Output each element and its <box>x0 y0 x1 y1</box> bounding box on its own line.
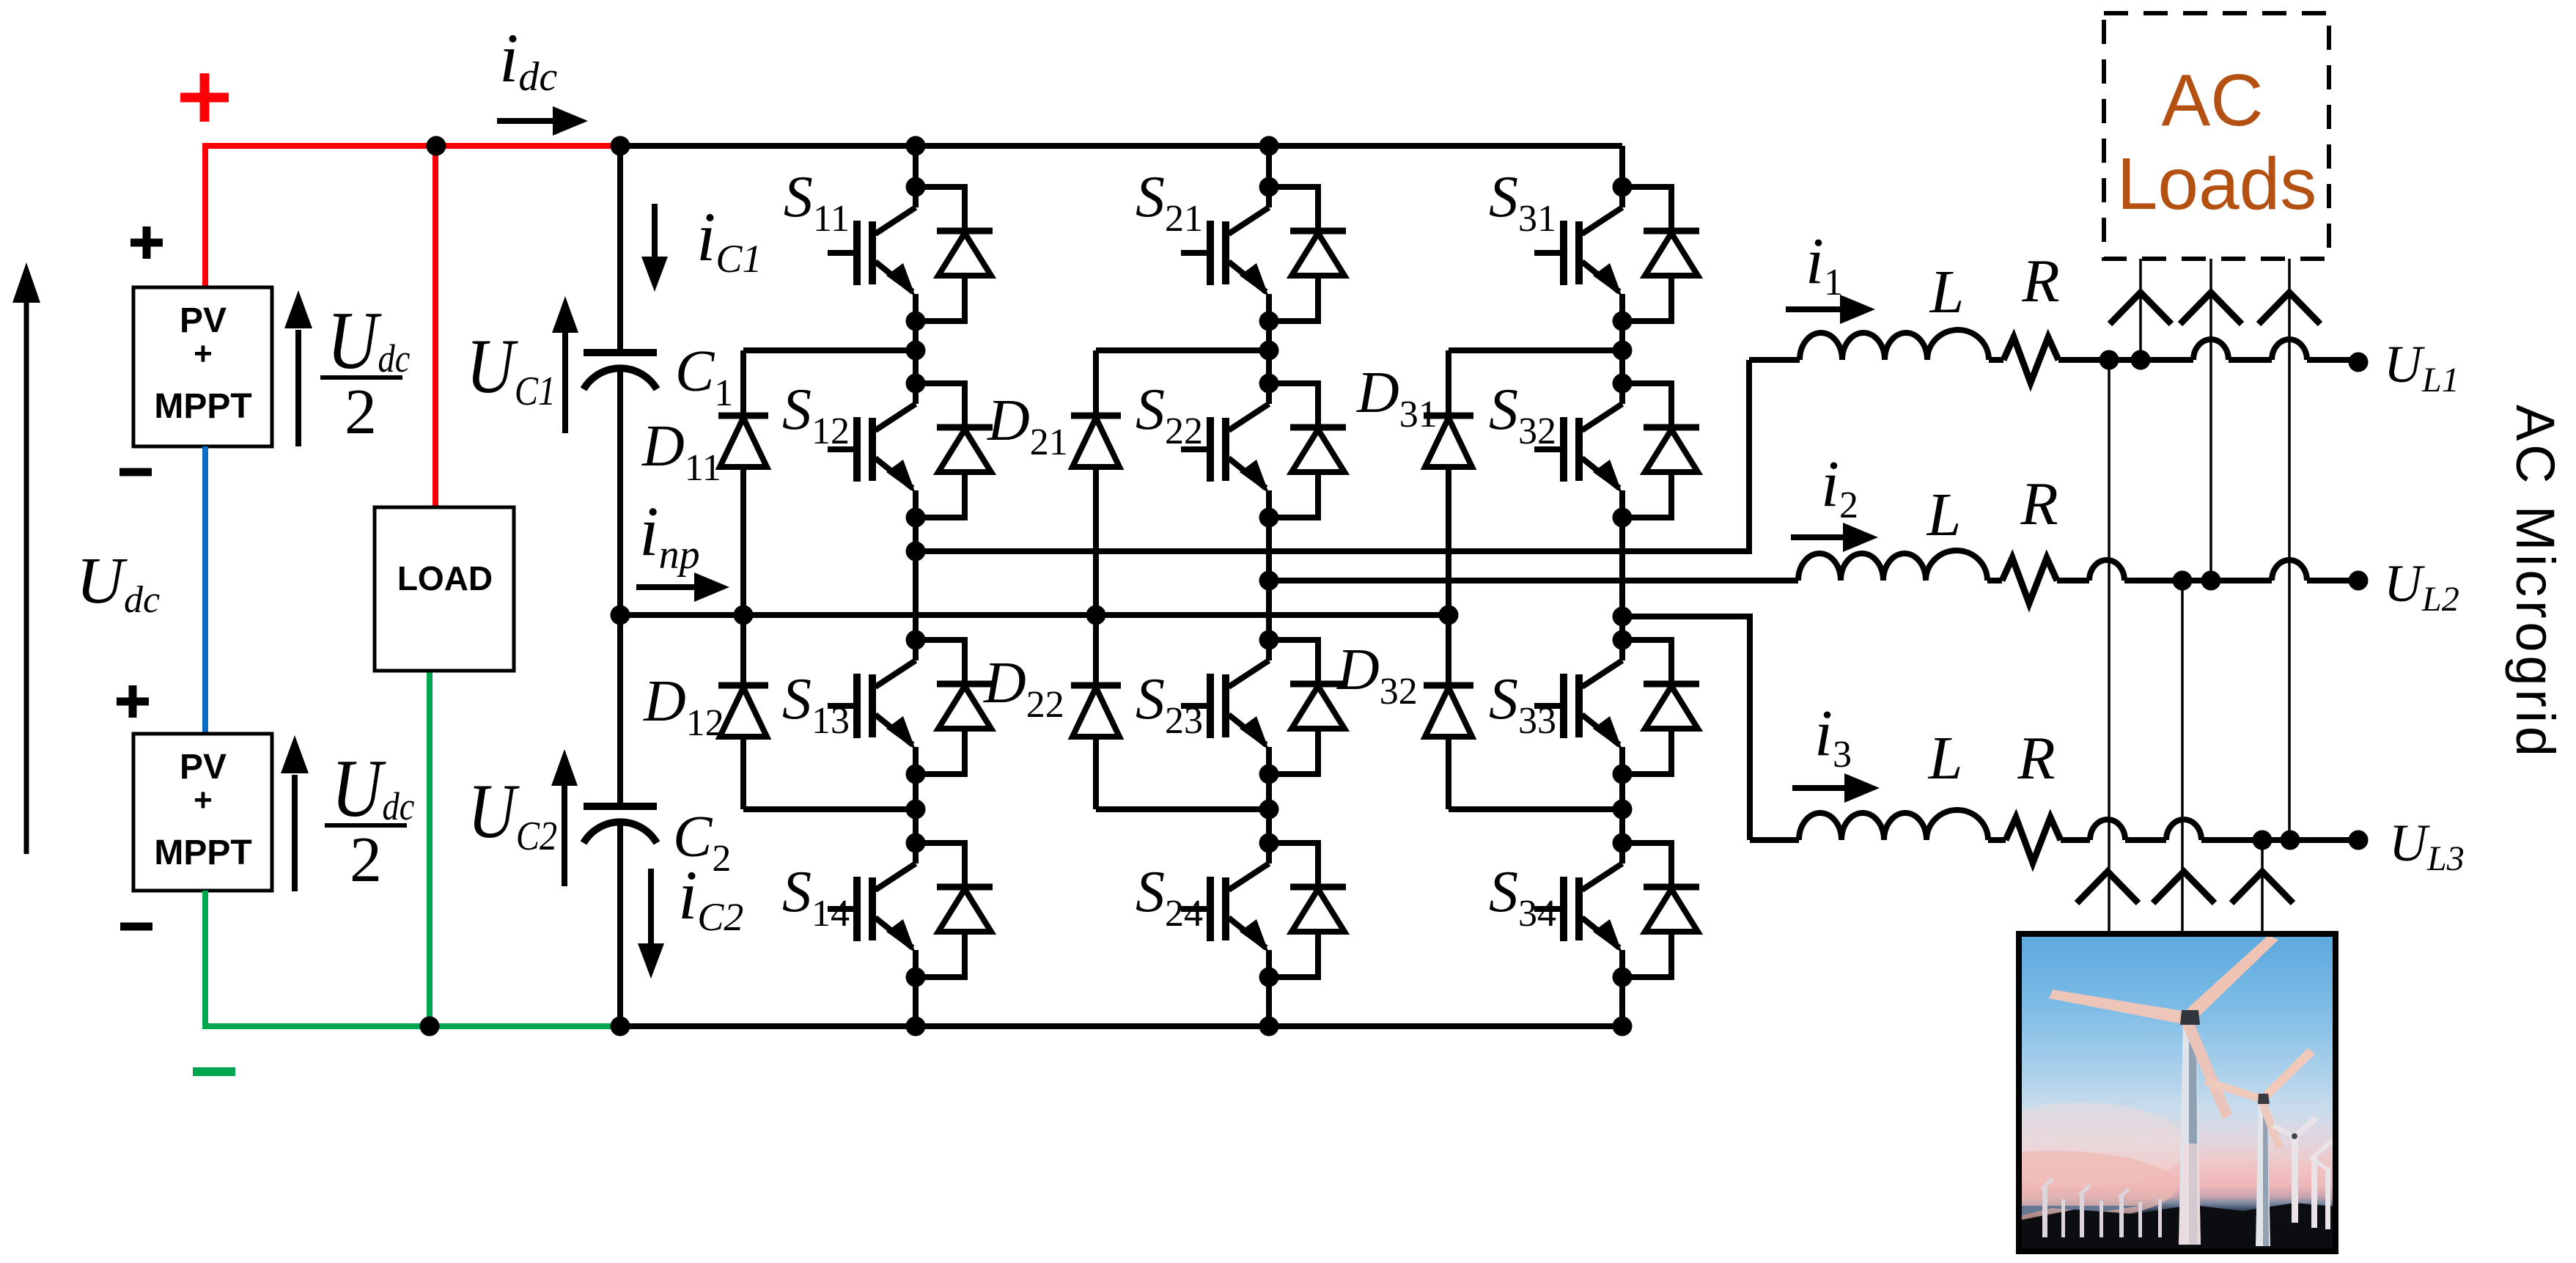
wire - clamp column 1 upper connection <box>743 347 916 353</box>
transistor S21 (IGBT with antiparallel diode) <box>1181 177 1346 331</box>
label UL2 <box>2384 554 2459 619</box>
svg-text:2: 2 <box>350 825 382 896</box>
arrow - Udc/2 lower arrow <box>292 775 298 891</box>
wire - phase 3 from leg3 with elbow down <box>1622 614 1750 619</box>
label Udc (total DC voltage) <box>76 545 160 621</box>
wire - loads feeder 3 <box>2288 259 2291 840</box>
label C1 <box>675 339 733 414</box>
arrow - idc current arrow <box>497 118 553 124</box>
svg-text:PV: PV <box>180 748 227 787</box>
label i3 <box>1814 697 1852 776</box>
wire - blue link between PV1 and PV2 <box>202 446 208 734</box>
node - top bus leg2 <box>1259 136 1279 156</box>
svg-text:AC Microgrid: AC Microgrid <box>2505 405 2566 756</box>
node - junction green rail / LOAD drop <box>420 1017 440 1036</box>
PV+MPPT box 1 (upper photovoltaic source) <box>133 287 272 446</box>
label S22 <box>1136 378 1203 452</box>
wire - phase 1 after R with crossover hops <box>2058 357 2193 363</box>
label iC1 <box>696 198 762 281</box>
inductor L (phase 1) <box>1800 330 1989 360</box>
wire - leg 2 vertical segments <box>1266 146 1272 187</box>
inductor L (phase 2) <box>1798 551 1987 581</box>
node - junction green rail / left DC bus <box>611 1017 630 1036</box>
node - leg 3 phase output junction <box>1613 607 1633 627</box>
wire - clamp column 1 middle vertical <box>740 467 746 685</box>
wire - phase 3 to inductor <box>1750 837 1799 843</box>
svg-text:Loads: Loads <box>2117 143 2316 225</box>
wire - green drop from LOAD box bottom <box>427 671 433 1026</box>
plus sign above PV2 <box>117 698 149 706</box>
LOAD box <box>375 507 514 671</box>
hop - phase2 over wind feeder 1 <box>2089 560 2124 581</box>
arrow chevron - loads feeder 1 <box>2110 292 2171 324</box>
wire - clamp column 1 vertical (upper) <box>740 350 746 416</box>
node - junction of red rail and left DC bus <box>611 136 630 156</box>
transistor S14 (IGBT with antiparallel diode) <box>828 833 993 987</box>
label D11 <box>641 414 721 489</box>
svg-text:L: L <box>1929 258 1965 326</box>
transistor S32 (IGBT with antiparallel diode) <box>1534 374 1699 528</box>
node - leg 3 upper clamp junction <box>1613 341 1633 361</box>
resistor R (phase 2) <box>2002 558 2057 603</box>
wire - left DC bus vertical segments <box>617 146 623 353</box>
label i1 <box>1806 225 1843 303</box>
node - phase3 to AC loads <box>2281 831 2300 850</box>
svg-text:PV: PV <box>180 301 227 340</box>
label S12 <box>782 378 850 452</box>
wire - clamp column 3 vertical (lower) <box>1446 737 1451 809</box>
svg-text:L: L <box>1927 481 1962 549</box>
label UL1 <box>2384 335 2459 399</box>
label D22 <box>983 651 1064 726</box>
hop - phase2 over loads line 3 <box>2272 560 2307 581</box>
arrow chevron - wind feeder 1 <box>2077 872 2138 903</box>
node - bottom bus leg3 <box>1613 1017 1633 1036</box>
minus sign below PV1 <box>119 468 152 476</box>
wire - wind feeder 3 <box>2261 840 2264 934</box>
arrow - iC2 current arrow (down) <box>648 869 654 943</box>
capacitor C2 <box>584 803 657 810</box>
wire - clamp column 3 middle vertical <box>1446 467 1451 685</box>
label i2 <box>1821 448 1858 526</box>
node - top bus leg1 <box>906 136 926 156</box>
transistor S24 (IGBT with antiparallel diode) <box>1181 833 1346 987</box>
node - phase2 to AC loads <box>2201 571 2221 591</box>
diode D12 (lower clamp diode) <box>718 685 768 737</box>
label fraction Udc/2 (lower) <box>331 743 414 833</box>
node - phase2 terminal <box>2349 571 2369 591</box>
arrow - tall Udc arrow at far left <box>24 302 29 854</box>
wire - wind feeder 2 <box>2181 581 2184 934</box>
svg-text:L: L <box>1928 724 1963 792</box>
wire - clamp column 3 vertical (upper) <box>1446 350 1451 416</box>
wire - leg 1 vertical segments <box>913 146 919 187</box>
node - phase1 to wind feeder <box>2100 350 2119 370</box>
wire - clamp column 2 upper connection <box>1096 347 1269 353</box>
hop - phase3 over wind feeder 2 <box>2166 820 2201 840</box>
transistor S23 (IGBT with antiparallel diode) <box>1181 630 1346 784</box>
wire - neutral bus <box>620 612 1449 618</box>
svg-text:AC: AC <box>2162 59 2264 141</box>
arrow - UC2 voltage arrow <box>562 786 567 886</box>
node - phase1 to AC loads <box>2131 350 2151 370</box>
node - phase2 to wind feeder <box>2173 571 2193 591</box>
diode D32 (lower clamp diode) <box>1424 685 1473 737</box>
wire - top DC bus <box>620 143 1622 149</box>
node - leg 1 lower clamp junction <box>906 800 926 820</box>
label fraction Udc/2 (upper) <box>327 295 410 386</box>
hop - phase3 over wind feeder 1 <box>2090 820 2125 840</box>
plus sign above PV1 <box>130 239 163 247</box>
diode D11 (upper clamp diode) <box>718 416 768 467</box>
label S14 <box>782 860 850 935</box>
svg-text:LOAD: LOAD <box>397 559 493 597</box>
node - neutral at clamp column 2 <box>1086 605 1106 625</box>
arrow - UC1 voltage arrow <box>562 333 568 433</box>
wire - loads feeder 1 <box>2139 259 2142 360</box>
inductor L (phase 3) <box>1799 810 1988 840</box>
label S13 <box>782 667 850 742</box>
svg-text:R: R <box>2017 724 2055 792</box>
node - phase1 terminal <box>2349 353 2369 372</box>
node - leg 2 upper clamp junction <box>1259 341 1279 361</box>
label S31 <box>1489 165 1556 240</box>
transistor S33 (IGBT with antiparallel diode) <box>1534 630 1699 784</box>
node - phase3 to wind feeder <box>2253 831 2273 850</box>
node - leg 3 lower clamp junction <box>1613 800 1633 820</box>
transistor S34 (IGBT with antiparallel diode) <box>1534 833 1699 987</box>
label iC2 <box>678 856 743 939</box>
label S34 <box>1489 860 1556 935</box>
wire - clamp column 1 lower connection <box>743 806 916 812</box>
label S32 <box>1489 378 1556 452</box>
wire - clamp column 2 vertical (upper) <box>1093 350 1099 416</box>
label C2 <box>673 805 731 880</box>
wire - phase 1 from leg1 to elbow <box>916 548 1749 554</box>
hop - phase1 over loads line 3 <box>2272 339 2307 360</box>
resistor R (phase 1) <box>2003 337 2058 383</box>
svg-text:2: 2 <box>345 377 377 448</box>
arrow chevron - wind feeder 2 <box>2153 872 2215 903</box>
wire - phase 1 to inductor <box>1749 357 1800 363</box>
arrow - iC1 current arrow (down) <box>652 204 658 257</box>
wire - bottom DC bus <box>620 1023 1622 1029</box>
node - leg 2 phase output junction <box>1259 571 1279 591</box>
wire - green negative rail from PV2 to bottom bus <box>202 891 208 1029</box>
node - neutral at left bus <box>611 605 630 625</box>
label D32 <box>1336 638 1418 712</box>
svg-text:R: R <box>2020 470 2058 538</box>
wire - clamp column 3 lower connection <box>1449 806 1622 812</box>
label UL3 <box>2389 814 2465 878</box>
node - bottom bus leg2 <box>1259 1017 1279 1036</box>
label D21 <box>987 389 1068 463</box>
transistor S11 (IGBT with antiparallel diode) <box>828 177 993 331</box>
node - neutral at clamp column 3 <box>1439 605 1459 625</box>
node - leg 2 lower clamp junction <box>1259 800 1279 820</box>
arrow - inp current arrow <box>636 584 695 590</box>
wire - clamp column 2 vertical (lower) <box>1093 737 1099 809</box>
wire - red positive DC rail from + down to PV1 and across to bus <box>202 143 208 287</box>
label UC1 <box>466 324 556 414</box>
minus terminal symbol (green -) of DC bus <box>193 1067 235 1076</box>
transistor S22 (IGBT with antiparallel diode) <box>1181 374 1346 528</box>
svg-text:R: R <box>2021 247 2059 315</box>
label idc <box>499 19 557 100</box>
arrow - i3 current arrow <box>1792 785 1845 791</box>
wire - phase2 L to R <box>1987 578 2002 583</box>
hop - phase1 over loads line 2 <box>2193 339 2229 360</box>
node - bottom bus leg1 <box>906 1017 926 1036</box>
wind farm photo border <box>2019 934 2336 1251</box>
arrow chevron - wind feeder 3 <box>2231 872 2293 903</box>
plus terminal symbol (red +) of DC bus <box>180 93 229 103</box>
arrow chevron - loads feeder 2 <box>2180 292 2242 324</box>
node - leg 1 upper clamp junction <box>906 341 926 361</box>
arrow - i2 current arrow <box>1791 534 1844 540</box>
wire - clamp column 1 vertical (lower) <box>740 737 746 809</box>
label S23 <box>1136 667 1203 742</box>
svg-text:MPPT: MPPT <box>154 387 251 426</box>
svg-text:+: + <box>194 782 213 818</box>
wire - clamp column 2 middle vertical <box>1093 467 1099 685</box>
label S21 <box>1136 165 1203 240</box>
wire - wind feeder 1 <box>2108 360 2111 934</box>
wire - phase 2 from leg2 to inductor <box>1269 578 1798 583</box>
capacitor C1 <box>584 349 657 356</box>
svg-text:+: + <box>194 336 213 372</box>
label D12 <box>643 669 724 744</box>
wire - phase 3 after R with crossover hops <box>2061 837 2090 843</box>
label S24 <box>1136 860 1203 935</box>
arrow - i1 current arrow <box>1786 306 1841 312</box>
diode D21 (upper clamp diode) <box>1071 416 1121 467</box>
label D31 <box>1356 361 1438 435</box>
wire - loads feeder 2 <box>2209 259 2212 581</box>
label UC2 <box>468 769 557 859</box>
label S33 <box>1489 667 1556 742</box>
wind farm photo (SVG recreation) <box>1928 935 2336 1248</box>
wire - red top horizontal from x=280 to left bus <box>202 143 620 149</box>
diode D22 (lower clamp diode) <box>1071 685 1121 737</box>
transistor S31 (IGBT with antiparallel diode) <box>1534 177 1699 331</box>
svg-text:MPPT: MPPT <box>154 833 251 872</box>
arrow - Udc/2 upper arrow <box>295 330 301 446</box>
node - leg 1 phase output junction <box>906 542 926 561</box>
wire - leg 3 vertical segments <box>1619 146 1625 187</box>
arrow chevron - loads feeder 3 <box>2259 292 2320 324</box>
resistor R (phase 3) <box>2006 817 2061 863</box>
wire - clamp column 2 lower connection <box>1096 806 1269 812</box>
wire - phase3 L to R <box>1988 837 2006 843</box>
PV+MPPT box 2 (lower photovoltaic source) <box>133 734 272 891</box>
label inp (neutral point current) <box>639 492 700 578</box>
node - junction of red rail and LOAD drop <box>427 136 446 156</box>
node - neutral at clamp column 1 <box>734 605 754 625</box>
transistor S13 (IGBT with antiparallel diode) <box>828 630 993 784</box>
AC Loads dashed box <box>2104 13 2329 259</box>
minus sign below PV2 <box>120 923 152 931</box>
transistor S12 (IGBT with antiparallel diode) <box>828 374 993 528</box>
node - phase3 terminal <box>2349 831 2369 850</box>
diode D31 (upper clamp diode) <box>1424 416 1473 467</box>
wire - phase 2 after R with crossover hops <box>2057 578 2089 583</box>
wire - clamp column 3 upper connection <box>1449 347 1622 353</box>
wire - phase1 L to R <box>1989 357 2003 363</box>
label S11 <box>784 165 850 240</box>
wire - red drop to LOAD box top <box>433 146 438 507</box>
